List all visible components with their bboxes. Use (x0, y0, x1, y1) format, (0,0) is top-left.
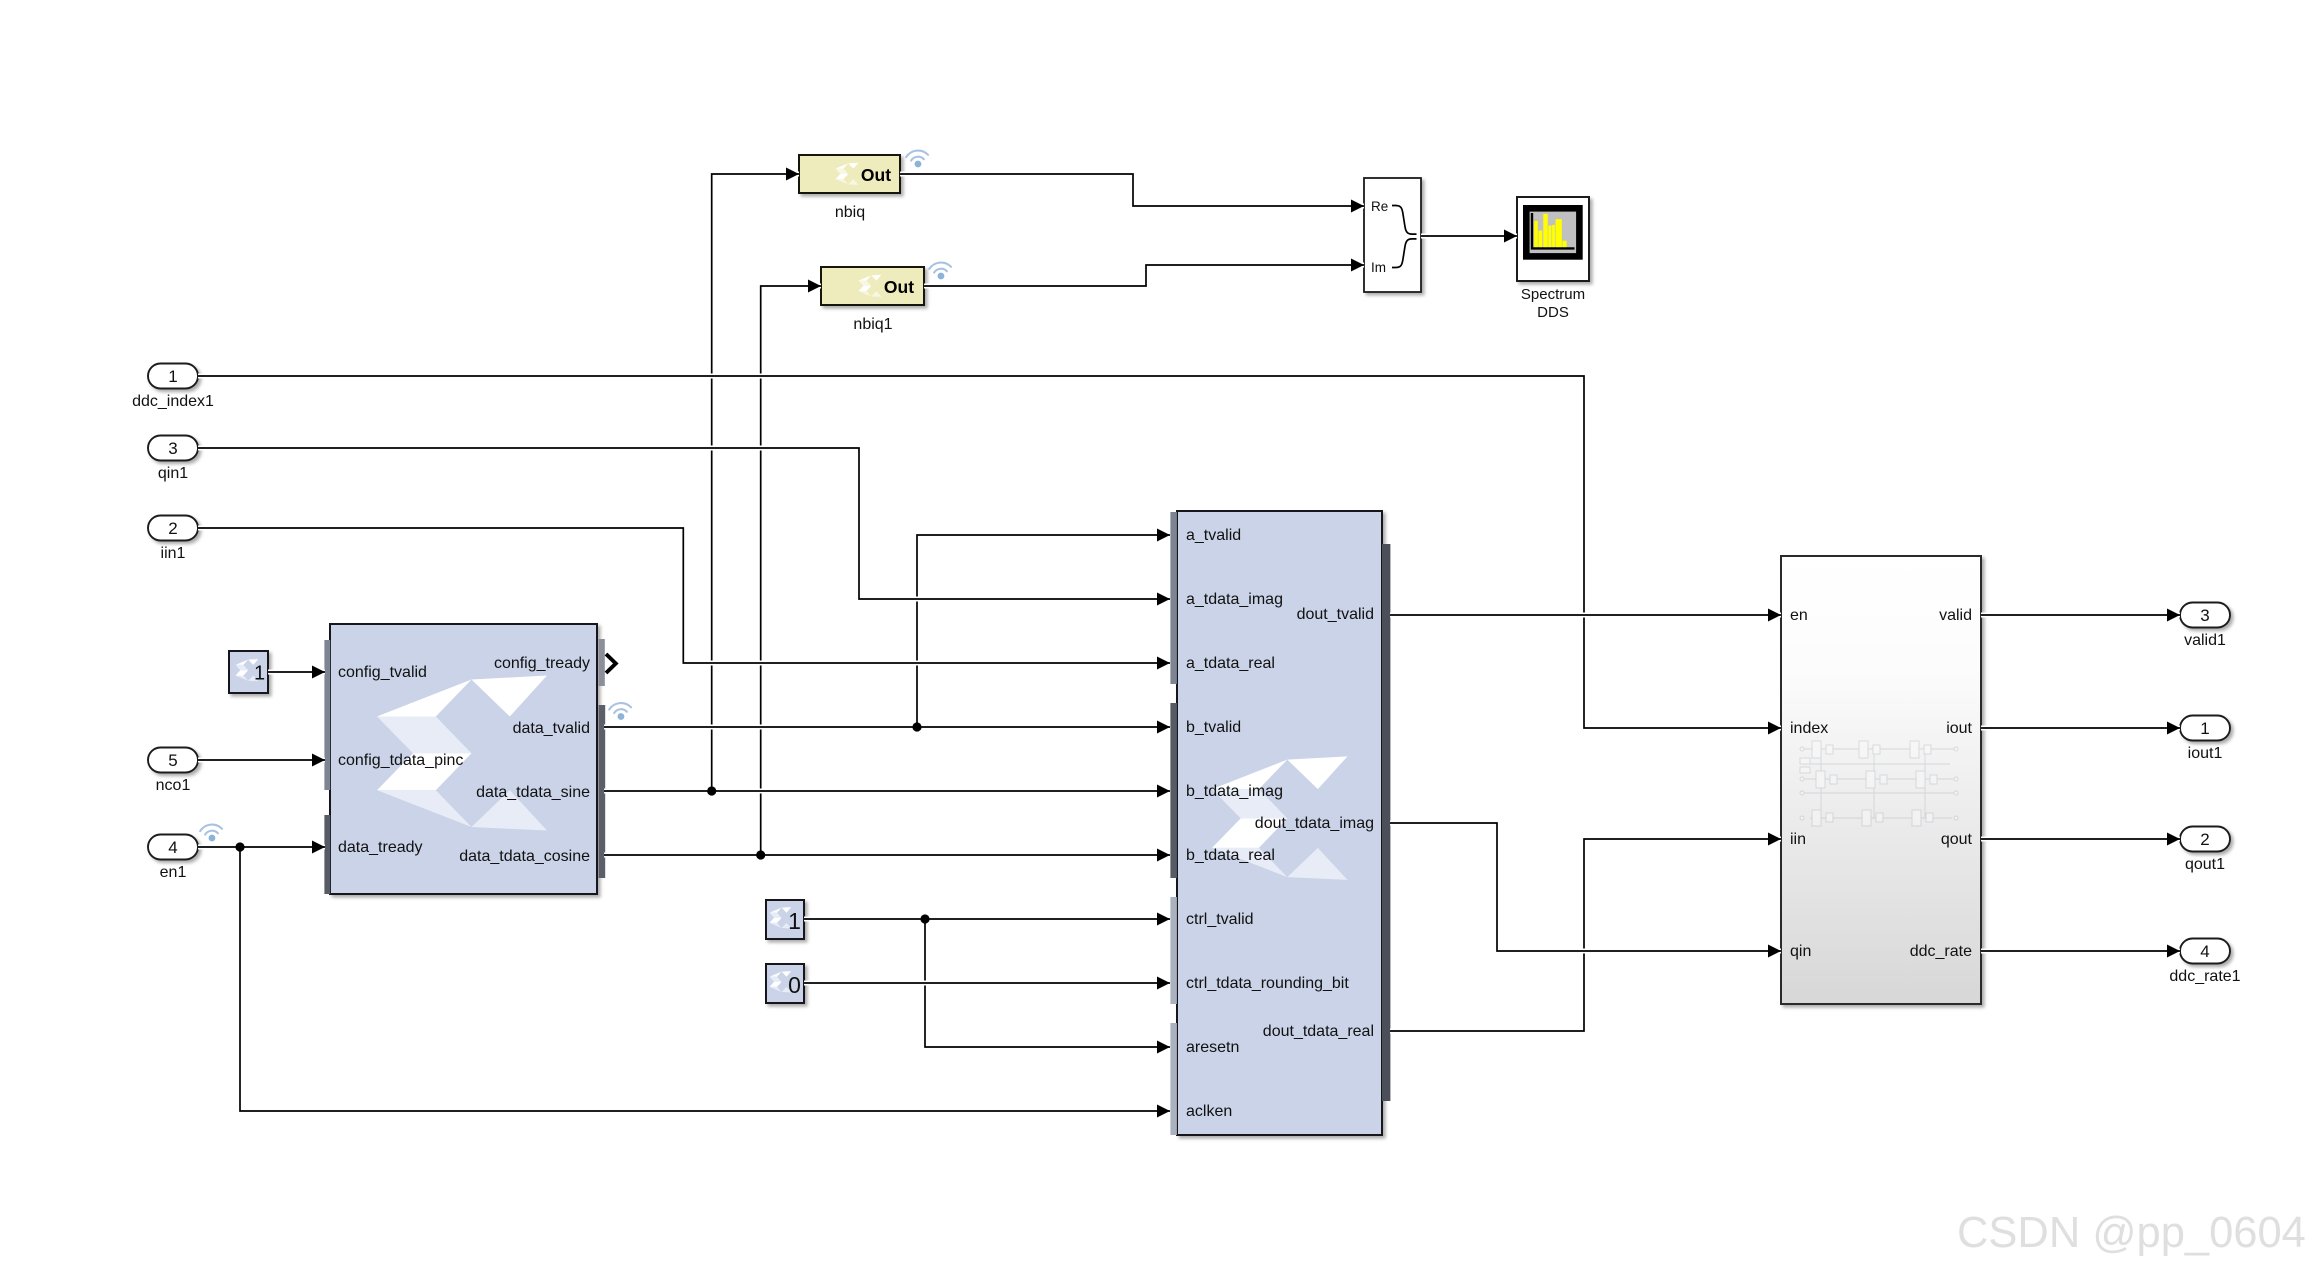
svg-text:config_tdata_pinc: config_tdata_pinc (338, 752, 463, 769)
svg-text:Im: Im (1371, 260, 1386, 275)
svg-text:data_tvalid: data_tvalid (513, 720, 590, 737)
svg-text:ctrl_tvalid: ctrl_tvalid (1186, 911, 1254, 928)
svg-text:nbiq1: nbiq1 (853, 316, 892, 333)
block gateway out nbiq (799, 149, 929, 221)
arrowhead into Im (1351, 259, 1364, 272)
wire cosine branch up to nbiq1 (761, 286, 821, 855)
svg-text:iin: iin (1790, 831, 1806, 848)
svg-text:Out: Out (861, 165, 891, 185)
arrowhead b_tdata_imag (1157, 785, 1170, 798)
svg-text:4: 4 (2200, 942, 2209, 961)
port outport 1 iout1 (2180, 716, 2230, 741)
svg-text:4: 4 (168, 838, 177, 857)
svg-text:1: 1 (2200, 719, 2209, 738)
arrowhead data_tready (312, 841, 325, 854)
arrowhead ctrl_tdata_rounding_bit (1157, 977, 1170, 990)
svg-text:aresetn: aresetn (1186, 1039, 1239, 1056)
block DDC subsystem (1781, 556, 1981, 1004)
block constant 1 (ctrl) (766, 900, 804, 939)
arrowhead into nbiq1 (808, 280, 821, 293)
svg-text:a_tdata_imag: a_tdata_imag (1186, 591, 1283, 608)
svg-text:en1: en1 (160, 864, 187, 881)
wire qin1 to a_tdata_imag (198, 448, 1170, 599)
junction en1 branch (235, 842, 244, 851)
unconnected output chevron config_tready (606, 654, 616, 673)
wire nco1 to config_tdata_pinc (198, 758, 325, 763)
wire const 0 to ctrl_tdata_rounding_bit (804, 981, 1170, 986)
wire data_tdata_cosine to b_tdata_real (604, 853, 1170, 858)
arrowhead a_tdata_real (1157, 657, 1170, 670)
arrowhead valid1 (2167, 609, 2180, 622)
wire qout to qout1 (1981, 837, 2180, 842)
arrowhead b_tdata_real (1157, 849, 1170, 862)
junction cosine branch (756, 850, 765, 859)
arrowhead aclken (1157, 1105, 1170, 1118)
block gateway out nbiq1 (821, 261, 952, 333)
svg-text:ddc_index1: ddc_index1 (132, 393, 214, 410)
arrowhead config_tdata_pinc (312, 754, 325, 767)
wire iin1 to a_tdata_real (198, 528, 1170, 663)
wire valid to valid1 (1981, 613, 2180, 618)
block Spectrum DDS scope (1517, 197, 1589, 321)
port inport 3 qin1 (148, 436, 198, 461)
junction tvalid branch (912, 722, 921, 731)
svg-text:5: 5 (168, 751, 177, 770)
multiplier right port bar (1382, 544, 1390, 1101)
svg-text:qin1: qin1 (158, 465, 188, 482)
wire dout_tdata_imag to qin (1390, 823, 1781, 951)
port inport 5 nco1 (148, 748, 198, 773)
arrowhead into spectrum (1504, 230, 1517, 243)
svg-text:b_tdata_real: b_tdata_real (1186, 847, 1275, 864)
multiplier left port bars (1170, 512, 1177, 684)
wire complex to spectrum scope (1421, 234, 1517, 239)
svg-text:config_tvalid: config_tvalid (338, 664, 427, 681)
arrowhead into Re (1351, 200, 1364, 213)
wire sine branch up to nbiq (712, 174, 799, 791)
svg-text:CSDN @pp_0604: CSDN @pp_0604 (1957, 1209, 2306, 1257)
svg-text:DDS: DDS (1537, 304, 1569, 321)
arrowhead a_tvalid (1157, 529, 1170, 542)
wire en1 to data_tready (198, 845, 325, 850)
block constant 1 (config) (229, 651, 268, 693)
wire nbiq1 to Im (924, 265, 1364, 286)
svg-text:iout1: iout1 (2188, 745, 2223, 762)
wire const to config_tvalid (268, 670, 325, 675)
svg-text:dout_tdata_imag: dout_tdata_imag (1255, 815, 1374, 832)
block complex multiplier (1177, 511, 1382, 1135)
DDS left port bars (324, 640, 330, 790)
svg-text:valid: valid (1939, 607, 1972, 624)
svg-text:iin1: iin1 (161, 545, 186, 562)
wire const 1 to ctrl_tvalid (804, 917, 1170, 922)
svg-text:ddc_rate: ddc_rate (1910, 943, 1972, 960)
wire iout to iout1 (1981, 726, 2180, 731)
svg-text:nbiq: nbiq (835, 204, 865, 221)
svg-text:ctrl_tdata_rounding_bit: ctrl_tdata_rounding_bit (1186, 975, 1349, 992)
svg-text:3: 3 (168, 439, 177, 458)
svg-text:data_tready: data_tready (338, 839, 423, 856)
svg-text:dout_tvalid: dout_tvalid (1297, 606, 1374, 623)
DDS right port bars (599, 639, 605, 686)
svg-text:data_tdata_sine: data_tdata_sine (476, 784, 590, 801)
svg-text:1: 1 (254, 663, 265, 685)
arrowhead index (1768, 722, 1781, 735)
port outport 2 qout1 (2180, 827, 2230, 852)
arrowhead config_tvalid (312, 666, 325, 679)
wire data_tdata_sine to b_tdata_imag (604, 789, 1170, 794)
arrowhead ctrl_tvalid (1157, 913, 1170, 926)
svg-text:data_tdata_cosine: data_tdata_cosine (459, 848, 590, 865)
svg-text:Out: Out (884, 277, 914, 297)
wire data_tvalid branch to a_tvalid (917, 535, 1170, 727)
svg-text:index: index (1790, 720, 1828, 737)
arrowhead aresetn (1157, 1041, 1170, 1054)
arrowhead qin (1768, 945, 1781, 958)
svg-text:nco1: nco1 (156, 777, 191, 794)
arrowhead qout1 (2167, 833, 2180, 846)
svg-text:1: 1 (788, 908, 801, 934)
svg-text:dout_tdata_real: dout_tdata_real (1263, 1023, 1374, 1040)
svg-text:valid1: valid1 (2184, 632, 2226, 649)
svg-text:a_tdata_real: a_tdata_real (1186, 655, 1275, 672)
svg-text:qin: qin (1790, 943, 1811, 960)
block constant 0 (766, 964, 804, 1003)
svg-text:2: 2 (2200, 830, 2209, 849)
wire data_tvalid to b_tvalid (604, 725, 1170, 730)
arrowhead a_tdata_imag (1157, 593, 1170, 606)
svg-text:b_tvalid: b_tvalid (1186, 719, 1241, 736)
svg-text:a_tvalid: a_tvalid (1186, 527, 1241, 544)
port outport 3 valid1 (2180, 603, 2230, 628)
arrowhead b_tvalid (1157, 721, 1170, 734)
port outport 4 ddc_rate1 (2180, 939, 2230, 964)
svg-text:en: en (1790, 607, 1808, 624)
wifi badge data_tvalid (609, 702, 633, 721)
svg-text:aclken: aclken (1186, 1103, 1232, 1120)
svg-text:qout: qout (1941, 831, 1973, 848)
wire const 1 branch to aresetn (925, 919, 1170, 1047)
wifi badge en1 (200, 823, 224, 842)
port inport 1 ddc_index1 (148, 364, 198, 389)
arrowhead en (1768, 609, 1781, 622)
svg-text:Re: Re (1371, 199, 1388, 214)
junction ctrl branch (920, 914, 929, 923)
faint inner circuit preview (1800, 741, 1958, 826)
wire dout_tdata_real to iin (1390, 839, 1781, 1031)
svg-text:0: 0 (788, 972, 801, 998)
arrowhead into nbiq (786, 168, 799, 181)
arrowhead iin (1768, 833, 1781, 846)
wire ddc_index1 to index (198, 376, 1781, 728)
arrowhead iout1 (2167, 722, 2180, 735)
wire en1 branch to aclken (240, 847, 1170, 1111)
arrowhead ddc_rate1 (2167, 945, 2180, 958)
svg-text:1: 1 (168, 367, 177, 386)
svg-text:b_tdata_imag: b_tdata_imag (1186, 783, 1283, 800)
svg-text:iout: iout (1946, 720, 1972, 737)
wire nbiq to Re (900, 174, 1364, 206)
port inport 4 en1 (148, 835, 198, 860)
junction sine branch (707, 786, 716, 795)
wire ddc_rate to ddc_rate1 (1981, 949, 2180, 954)
svg-text:3: 3 (2200, 606, 2209, 625)
svg-text:config_tready: config_tready (494, 655, 590, 672)
wire dout_tvalid to en (1390, 613, 1781, 618)
svg-text:Spectrum: Spectrum (1521, 286, 1585, 303)
svg-text:ddc_rate1: ddc_rate1 (2169, 968, 2240, 985)
svg-text:2: 2 (168, 519, 177, 538)
port inport 2 iin1 (148, 516, 198, 541)
block Re/Im to Complex (1364, 178, 1421, 292)
svg-text:qout1: qout1 (2185, 856, 2225, 873)
block DDS compiler (330, 624, 597, 894)
